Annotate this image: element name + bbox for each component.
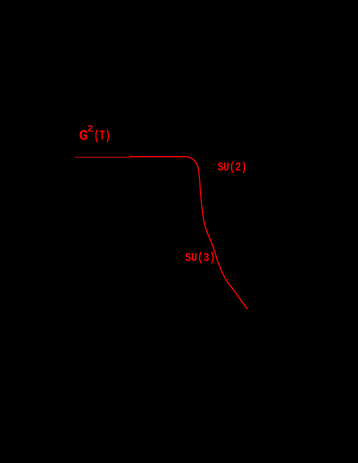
wire: dark-red left segment of curve bbox=[75, 156, 131, 158]
svg-text:SU(3): SU(3) bbox=[185, 251, 216, 265]
svg-text:2: 2 bbox=[87, 124, 93, 135]
svg-text:(T): (T) bbox=[94, 129, 111, 145]
curve G2(T) vs T (bright red) bbox=[130, 157, 247, 309]
svg-text:SU(2): SU(2) bbox=[218, 161, 248, 175]
